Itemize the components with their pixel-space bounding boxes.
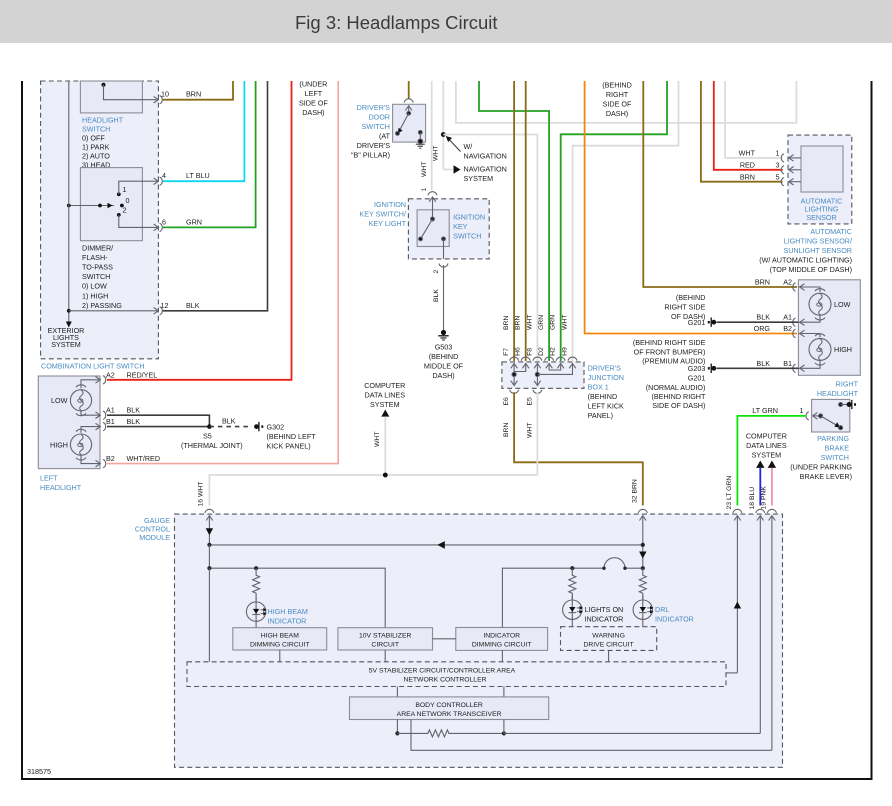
svg-text:GRN: GRN [186,217,202,226]
svg-text:HIGH: HIGH [50,441,68,450]
svg-text:KICK PANEL): KICK PANEL) [267,442,311,451]
wire LT BLU pin4 to top edge [163,81,245,181]
left headlight box [38,376,100,469]
svg-text:DASH): DASH) [302,108,324,117]
svg-text:PARKING: PARKING [817,434,849,443]
svg-text:2) AUTO: 2) AUTO [82,151,110,160]
wire BRN top edge to junction box H6 [525,81,527,361]
LED DRL indicator [633,595,653,627]
resistor (high beam indicator) [253,568,260,600]
navigation system reference [443,164,506,183]
wire BLK pin12 to top edge [163,81,268,311]
svg-text:LEFT: LEFT [305,89,323,98]
stub high beam box to 5V box [279,650,281,662]
svg-text:IGNITION: IGNITION [453,212,485,221]
ignition key switch dashed box [408,199,489,259]
ground (parking brake lever) [847,400,856,409]
svg-text:3: 3 [776,161,780,170]
W/ NAVIGATION callout arrow [446,136,507,161]
wire LT GRN parking brake to gauge pin 23 [737,416,806,506]
svg-text:BRN: BRN [503,316,510,330]
svg-text:BLK: BLK [127,417,141,426]
ignition connector 1 arc [428,192,437,196]
svg-text:WHT: WHT [562,315,569,330]
wire BLK dashed to G302 [209,426,252,428]
box indicator dimming circuit [456,628,548,651]
svg-text:16 WHT: 16 WHT [198,482,205,507]
svg-text:BRN: BRN [515,316,522,330]
svg-text:S5: S5 [203,431,212,440]
left headlight LOW bulb [70,380,100,416]
svg-text:SYSTEM: SYSTEM [752,450,782,459]
svg-text:1) PARK: 1) PARK [82,142,110,151]
connector B1 [96,422,106,430]
svg-text:BRAKE LEVER): BRAKE LEVER) [800,472,852,481]
svg-text:(AT: (AT [379,132,391,141]
driver's door switch connector arc [404,99,413,103]
svg-text:HEADLIGHT: HEADLIGHT [817,389,859,398]
box 5V stabilizer / CAN controller (dashed) [187,662,726,687]
wire BLK B1 [107,426,209,428]
wire WHT E5 down to data-line bus [536,392,538,475]
svg-text:COMPUTER: COMPUTER [364,381,405,390]
svg-text:WHT: WHT [526,423,533,438]
wire contact1 to pin 4 [119,181,158,194]
resistor (DRL indicator) [639,568,646,600]
svg-text:G201: G201 [688,318,706,327]
svg-text:(UNDER: (UNDER [299,79,327,88]
svg-text:BRAKE: BRAKE [825,444,850,453]
wire WHT/RED B2 to top edge [107,81,338,464]
svg-text:SWITCH: SWITCH [82,125,110,134]
svg-text:WHT: WHT [433,146,440,161]
ignition pin 2 connector arc [439,264,448,268]
node W/ NAVIGATION [441,132,446,137]
svg-text:SYSTEM: SYSTEM [464,174,494,183]
wire ORG top edge to right headlight B2 [585,81,797,334]
svg-text:1: 1 [800,406,804,415]
wire body controller left leg [396,720,398,734]
wire WHT top edge to navigation node [442,81,444,170]
svg-text:HIGH BEAM: HIGH BEAM [261,632,299,639]
svg-text:(TOP MIDDLE OF DASH): (TOP MIDDLE OF DASH) [770,265,852,274]
svg-text:5V STABILIZER CIRCUIT/CONTROLL: 5V STABILIZER CIRCUIT/CONTROLLER AREA [369,667,516,674]
junction node data line [383,473,388,478]
svg-text:DRIVER'S: DRIVER'S [588,363,622,372]
svg-text:2: 2 [123,206,127,215]
svg-text:5: 5 [776,172,780,181]
svg-text:LIGHTS ON: LIGHTS ON [585,605,624,614]
ground G201 (dash) [708,318,716,327]
svg-text:SENSOR: SENSOR [806,213,836,222]
node S5 thermal joint [207,424,212,429]
svg-text:1: 1 [421,188,428,192]
wire headlight switch to pin 10 [104,85,159,100]
svg-text:SYSTEM: SYSTEM [51,340,81,349]
ignition key switch caption (outer) [359,200,406,228]
gauge control module (dashed enclosure) [175,514,783,767]
svg-text:18 BLU: 18 BLU [749,487,756,510]
connector B2 [96,459,106,467]
junction box pin number labels (vertical) [503,347,569,356]
svg-text:LOW: LOW [834,300,851,309]
terminator resistor [397,730,504,737]
diode arrow pin32 [639,552,646,559]
automatic lighting sensor dashed box [788,135,852,224]
svg-text:A2: A2 [106,370,115,379]
wire GRN top edge to junction box H2 [561,81,667,361]
internal bus wire down to exterior lights system [66,81,72,328]
svg-text:FLASH-: FLASH- [82,253,108,262]
wire GRN top edge to junction box D2 [479,81,549,361]
wire BRN top edge to driver's door switch [408,81,410,99]
svg-text:INDICATOR: INDICATOR [483,632,520,639]
svg-text:BRN: BRN [186,90,201,99]
svg-text:(BEHIND: (BEHIND [429,352,459,361]
svg-text:H6: H6 [515,347,522,356]
node left of terminator resistor [395,731,399,735]
svg-text:KEY SWITCH/: KEY SWITCH/ [359,210,406,219]
box warning drive circuit (dashed) [561,627,657,651]
connector B2 (right headlight) [793,329,805,337]
right headlight box [798,280,860,376]
svg-text:PANEL): PANEL) [588,411,613,420]
internal bus 2 left (pin16 branch to 10V stabilizer) [207,545,385,628]
svg-text:BRN: BRN [755,278,770,287]
wire BRN top edge to right headlight A2 [643,81,797,287]
svg-text:0: 0 [126,196,130,205]
svg-text:(BEHIND: (BEHIND [602,80,632,89]
svg-text:CIRCUIT: CIRCUIT [371,641,399,648]
exterior lights system reference [48,326,85,349]
combination light switch (dashed enclosure) [41,81,159,359]
svg-text:SWITCH: SWITCH [453,231,481,240]
svg-text:LIGHTING SENSOR/: LIGHTING SENSOR/ [784,236,852,245]
driver's junction box 1 (dashed) [502,362,584,388]
gauge pin 18 connector [756,509,765,733]
wire resistor node to pin 18 [504,732,760,734]
harness note (under left side of dash) [299,79,328,117]
svg-text:10: 10 [161,90,169,99]
svg-text:INDICATOR: INDICATOR [268,617,307,626]
box 10V stabilizer circuit [338,628,433,650]
junction box internal wiring [511,364,576,386]
svg-text:BRN: BRN [740,172,755,181]
svg-text:GRN: GRN [538,315,545,330]
parking brake connector 1 [806,412,809,420]
svg-text:1: 1 [776,149,780,158]
ground G302 [254,422,316,451]
wire BLU to gauge pin 18 [759,468,761,506]
internal bus 1 (pin16 to pin32) [207,541,645,549]
wire name labels above junction box (vertical) [503,315,569,330]
svg-text:BLK: BLK [756,359,770,368]
svg-text:LEFT KICK: LEFT KICK [588,401,624,410]
stub warning drive box to 5V box [608,650,610,661]
dimmer contact 0 [120,204,124,208]
svg-text:SYSTEM: SYSTEM [370,400,400,409]
svg-text:G302: G302 [267,423,285,432]
svg-text:DATA LINES: DATA LINES [365,391,406,400]
svg-text:NAVIGATION: NAVIGATION [464,164,507,173]
svg-text:19 PNK: 19 PNK [761,486,768,510]
driver's door switch box [393,104,426,142]
svg-text:SIDE OF: SIDE OF [603,99,632,108]
svg-text:(BEHIND RIGHT: (BEHIND RIGHT [651,392,706,401]
diode arrow pin16 [206,528,213,535]
wire pin16 branch down to 5V box [208,568,210,662]
computer data lines system reference (left) [364,381,405,417]
svg-text:H2: H2 [550,347,557,356]
svg-text:SWITCH: SWITCH [821,453,849,462]
svg-text:HIGH BEAM: HIGH BEAM [268,607,308,616]
harness note (behind right side of dash, top) [602,80,632,118]
right headlight HIGH bulb [798,334,831,369]
title bar [0,0,892,43]
diode arrow pin23 [734,602,741,609]
svg-text:DIMMING CIRCUIT: DIMMING CIRCUIT [250,641,310,648]
svg-text:4: 4 [162,171,166,180]
svg-text:BLK: BLK [756,313,770,322]
svg-text:B2: B2 [106,454,115,463]
ground (door switch chassis) [416,144,425,148]
wire body controller right leg [503,720,505,734]
svg-text:10V STABILIZER: 10V STABILIZER [359,632,411,639]
svg-text:318575: 318575 [27,767,51,776]
wire WHT horizontal bus to pin16 and E5 [209,475,537,506]
wire BRN pin10 to top edge [163,81,233,100]
pin 4 connector [154,177,163,185]
pin 12 connector [154,307,163,315]
left headlight HIGH bulb [70,427,100,464]
svg-text:0) OFF: 0) OFF [82,133,105,142]
svg-text:SUNLIGHT SENSOR: SUNLIGHT SENSOR [783,246,852,255]
stub 5V box to body controller (left) [396,687,398,697]
headlight switch contact node [102,83,106,87]
wire BLK A1 to ground G201 [717,321,799,323]
svg-text:MIDDLE OF: MIDDLE OF [424,362,464,371]
gauge pin 32 connector [638,509,647,568]
wire WHT top edge to ignition key switch [431,81,433,191]
wire BRN top edge to sensor pin 5 [701,81,783,182]
junction box top pin arcs [510,357,577,361]
svg-text:COMBINATION LIGHT SWITCH: COMBINATION LIGHT SWITCH [41,361,145,370]
dimmer contact 1 [117,192,121,196]
svg-text:KEY LIGHT: KEY LIGHT [369,219,407,228]
svg-text:G203: G203 [688,364,706,373]
connector A1 [96,411,106,419]
parking brake switch box [812,399,850,432]
svg-text:0) LOW: 0) LOW [82,282,107,291]
svg-text:SIDE OF: SIDE OF [299,98,328,107]
svg-text:INDICATOR: INDICATOR [585,615,624,624]
wire pin 19 to body controller bottom [411,720,772,751]
wire BLK B1 to ground G203/G201 [717,367,799,369]
automatic lighting sensor caption (inner) [801,196,843,222]
wire WHT node to junction box F8 [443,135,537,362]
svg-text:B1: B1 [783,359,792,368]
svg-text:OF FRONT BUMPER): OF FRONT BUMPER) [634,347,706,356]
svg-text:W/: W/ [464,142,473,151]
dimmer common wire with arrow to contact 0 [67,203,114,208]
right headlight LOW bulb [798,287,831,322]
svg-text:JUNCTION: JUNCTION [588,373,624,382]
LED high beam indicator [246,597,266,628]
svg-text:DRIVER'S: DRIVER'S [357,103,391,112]
junction box caption [588,363,624,420]
svg-text:LT BLU: LT BLU [186,171,210,180]
wire WHT top edge to sensor pin 1 [725,81,783,158]
svg-text:BRN: BRN [503,423,510,437]
svg-text:E6: E6 [503,397,510,406]
svg-text:(BEHIND: (BEHIND [588,392,618,401]
svg-text:(UNDER PARKING: (UNDER PARKING [790,463,852,472]
wire PNK to gauge pin 19 [771,468,773,506]
driver's door switch caption [351,103,391,160]
svg-text:DOOR: DOOR [368,113,390,122]
svg-text:BLK: BLK [222,417,236,426]
svg-text:12: 12 [161,301,169,310]
svg-text:B1: B1 [106,417,115,426]
ignition key switch caption (inner) [453,212,485,240]
LED lights on indicator [563,595,583,627]
svg-text:H9: H9 [562,347,569,356]
parking brake internals [813,403,847,430]
svg-text:B2: B2 [783,324,792,333]
svg-text:1) HIGH: 1) HIGH [82,291,108,300]
ignition key switch inner box [417,210,449,247]
wire bus to pin 12 [69,310,158,312]
svg-text:"B" PILLAR): "B" PILLAR) [351,151,390,160]
svg-text:1: 1 [123,185,127,194]
stub 5V box to body controller (right) [503,687,505,697]
svg-text:F8: F8 [526,348,533,356]
junction box bottom pin arcs E6 E5 [510,390,542,394]
svg-text:BODY CONTROLLER: BODY CONTROLLER [415,702,483,709]
ground G503 [424,330,464,380]
wire BRN top edge to junction box F7 [513,81,515,361]
svg-text:(NORMAL AUDIO): (NORMAL AUDIO) [646,383,706,392]
gauge pin 23 connector [733,509,742,673]
headlight switch box [80,81,142,169]
svg-text:NAVIGATION: NAVIGATION [464,152,507,161]
svg-text:A1: A1 [783,313,792,322]
wire WHT computer data lines to junction [384,417,386,475]
connector A1 (right headlight) [793,318,805,326]
svg-text:32 BRN: 32 BRN [632,479,639,503]
wire WHT top edge to junction box H9 [573,81,679,361]
svg-text:6: 6 [162,217,166,226]
svg-text:SIDE OF DASH): SIDE OF DASH) [652,401,705,410]
svg-text:WHT: WHT [421,162,428,177]
computer data lines system reference (right) [746,431,787,468]
svg-text:DATA LINES: DATA LINES [746,441,787,450]
svg-text:HIGH: HIGH [834,345,852,354]
pin 6 connector [154,223,163,231]
svg-text:NETWORK CONTROLLER: NETWORK CONTROLLER [403,676,486,683]
svg-text:IGNITION: IGNITION [374,200,406,209]
svg-text:DRIVER'S: DRIVER'S [357,141,391,150]
svg-text:MODULE: MODULE [139,533,170,542]
svg-text:LT GRN: LT GRN [752,406,778,415]
svg-text:AUTOMATIC: AUTOMATIC [810,227,852,236]
svg-text:WHT: WHT [374,432,381,447]
wire pin23 into 5V box [726,672,737,674]
svg-text:WARNING: WARNING [592,632,625,639]
connector B1 (right headlight) [793,364,805,372]
svg-text:LEFT: LEFT [40,474,58,483]
sensor pin 3 connector [781,166,801,174]
svg-text:G201: G201 [688,374,706,383]
wire GRN pin6 to top edge [163,81,256,227]
automatic lighting sensor caption (outer) [759,227,852,274]
G201 ground caption [664,293,705,327]
svg-text:DIMMER/: DIMMER/ [82,244,113,253]
wire BLK A1 [107,415,209,426]
svg-text:(BEHIND LEFT: (BEHIND LEFT [267,432,317,441]
automatic lighting sensor inner box [801,146,843,192]
svg-text:(THERMAL JOINT): (THERMAL JOINT) [181,441,243,450]
svg-text:DRIVE CIRCUIT: DRIVE CIRCUIT [583,641,633,648]
stub indicator dimming box to 5V box [501,650,503,661]
svg-text:LOW: LOW [51,396,68,405]
svg-text:2) PASSING: 2) PASSING [82,301,122,310]
svg-text:2: 2 [433,270,440,274]
svg-text:RIGHT: RIGHT [606,90,629,99]
svg-text:GRN: GRN [550,315,557,330]
svg-text:COMPUTER: COMPUTER [746,431,787,440]
svg-text:WHT/RED: WHT/RED [127,454,161,463]
svg-text:BLK: BLK [127,406,141,415]
gauge pin 16 connector [205,509,214,545]
svg-text:DRL: DRL [655,605,669,614]
ground G203 (bumper) [708,364,716,373]
svg-text:TO-PASS: TO-PASS [82,263,113,272]
svg-text:DIMMING CIRCUIT: DIMMING CIRCUIT [472,641,532,648]
wire contact2 to pin 6 [119,215,158,228]
sensor pin 5 connector [781,178,801,186]
svg-text:(BEHIND RIGHT SIDE: (BEHIND RIGHT SIDE [633,338,706,347]
driver's door switch internals [396,106,423,144]
svg-text:G503: G503 [435,343,453,352]
svg-text:INDICATOR: INDICATOR [655,615,694,624]
G203/G201 ground caption [633,338,706,410]
connector A2 [96,376,106,384]
svg-text:F7: F7 [503,348,510,356]
connector A2 (right headlight) [793,283,805,291]
svg-text:(W/ AUTOMATIC LIGHTING): (W/ AUTOMATIC LIGHTING) [759,255,852,264]
internal bus 2 right (indicator dimming to pin32 branch) [502,558,645,628]
wire BRN E6 to gauge pin 32 [514,392,643,505]
resistor (lights on indicator) [569,568,576,600]
svg-text:BLK: BLK [186,301,200,310]
parking brake switch caption [790,434,852,481]
gauge control module caption [135,516,170,542]
wire RED/YEL A2 to top edge [107,81,292,380]
node right of terminator resistor [502,731,506,735]
svg-text:KEY: KEY [453,222,468,231]
wire RED top edge to sensor pin 3 [714,81,783,170]
svg-text:SWITCH: SWITCH [362,122,390,131]
svg-text:BLK: BLK [433,289,440,302]
svg-text:RED: RED [740,161,755,170]
wire WHT u-loop top to top [456,81,797,123]
svg-text:D2: D2 [538,347,545,356]
svg-text:A1: A1 [106,406,115,415]
stub 10V box to 5V box [384,650,386,662]
box body controller CAN transceiver [350,697,549,720]
svg-text:DASH): DASH) [432,371,454,380]
